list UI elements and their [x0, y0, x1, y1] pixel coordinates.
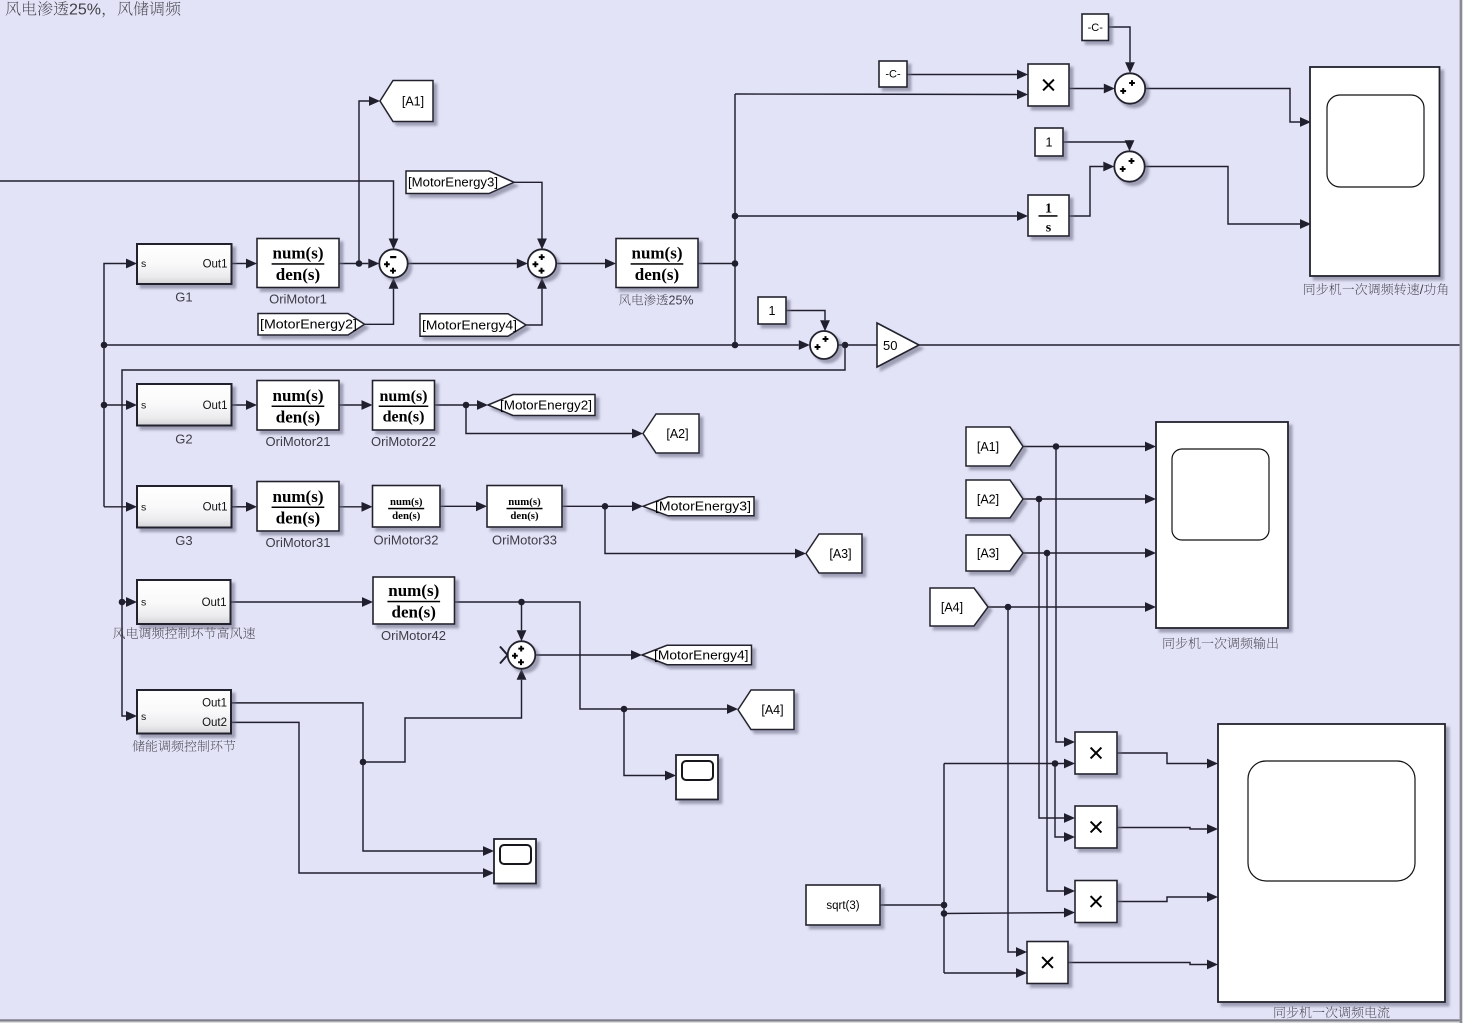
wire: constant 1 into sum S6 top: [1063, 140, 1130, 142]
svg-text:num(s): num(s): [379, 388, 427, 405]
product P2: [1075, 806, 1117, 848]
node: junction with main bus: [732, 342, 739, 349]
svg-text:s: s: [141, 258, 146, 270]
svg-text:G3: G3: [175, 533, 192, 548]
wire: trunk top to product X1 second input: [735, 93, 1017, 96]
wire: trunk to integrator 1/s input: [735, 215, 1017, 217]
node: branch to sum S4: [518, 599, 525, 606]
goto tag MotorEnergy4: [642, 645, 752, 665]
transfer fcn OriMotor32: [373, 486, 441, 528]
node: A1 branch: [1053, 443, 1060, 450]
svg-text:50: 50: [883, 338, 897, 353]
svg-text:[MotorEnergy3]: [MotorEnergy3]: [408, 176, 498, 190]
svg-text:OriMotor32: OriMotor32: [374, 533, 439, 548]
wire: branch up to goto [A1]: [359, 101, 369, 264]
node: gain input branch: [842, 342, 849, 349]
node: A2 branch: [1036, 496, 1043, 503]
wire: G1 to OriMotor1: [232, 263, 247, 265]
wire: sum S6 to scope1 input2: [1145, 167, 1300, 225]
wire: sum S1 to sum S2: [408, 263, 517, 265]
svg-text:[A4]: [A4]: [761, 703, 783, 717]
from tag MotorEnergy2: [258, 314, 365, 336]
wire: gain 50 output to right edge: [919, 344, 1463, 346]
node: TF output junction: [732, 260, 739, 267]
wire: sqrt bottom branch to product P4 input2: [944, 972, 1016, 974]
svg-text:25%: 25%: [669, 294, 694, 308]
wire: vertical trunk x=735: [734, 94, 736, 345]
svg-text:OriMotor33: OriMotor33: [492, 533, 557, 548]
wire: product P3 to scope3 input3: [1117, 897, 1207, 902]
svg-text:OriMotor22: OriMotor22: [371, 434, 436, 449]
node: branch to G2: [101, 402, 108, 409]
svg-text:Out1: Out1: [203, 502, 228, 514]
transfer fcn OriMotor31: [257, 482, 339, 532]
node: branch to subsystem G4: [119, 599, 126, 606]
wire: sum S4 to goto MotorEnergy4: [535, 654, 631, 656]
node: branch to product P3: [941, 910, 948, 917]
svg-text:-C-: -C-: [885, 69, 901, 81]
scope: sync machine primary freq current: [1218, 724, 1445, 1002]
scope: sync machine primary freq output: [1156, 422, 1288, 628]
svg-text:OriMotor42: OriMotor42: [381, 628, 446, 643]
wire: G5 Out2 to small scope A input2: [231, 722, 483, 873]
wire: OriMotor32 to OriMotor33: [440, 505, 476, 507]
wire: OriMotor22 to goto MotorEnergy2: [435, 404, 478, 406]
sum S2: [528, 249, 556, 277]
wire: integrator to sum S6: [1069, 167, 1103, 217]
node: sqrt branch to P2: [1052, 760, 1059, 767]
window bottom edge: [0, 1019, 1463, 1023]
wire: sqrt(3) to distribution vertical: [880, 904, 944, 906]
wire: product P2 to scope3 input2: [1117, 828, 1207, 830]
goto tag [A2]: [643, 414, 699, 453]
scope: sync machine speed/angle: [1310, 67, 1440, 276]
svg-text:OriMotor21: OriMotor21: [266, 434, 331, 449]
constant -C- (left): [879, 61, 907, 87]
svg-text:[A2]: [A2]: [666, 427, 688, 441]
svg-text:[MotorEnergy4]: [MotorEnergy4]: [654, 648, 749, 662]
svg-text:[A1]: [A1]: [402, 94, 424, 108]
svg-text:G2: G2: [175, 432, 192, 447]
wire: branch down to goto [A3]: [605, 506, 795, 553]
product X1: [1028, 64, 1069, 106]
wire: From [A3] to scope2 input3: [1023, 552, 1145, 554]
transfer fcn OriMotor1: [257, 239, 339, 288]
svg-text:den(s): den(s): [392, 510, 421, 522]
wire: OriMotor21 to OriMotor22: [339, 404, 362, 406]
svg-text:num(s): num(s): [272, 386, 323, 405]
goto tag MotorEnergy2: [488, 395, 595, 416]
transfer fcn wind penetration 25%: [616, 239, 698, 288]
svg-text:[A2]: [A2]: [977, 492, 999, 506]
wire: branch into G4 input: [122, 601, 126, 603]
from tag MotorEnergy3: [406, 171, 514, 194]
svg-text:num(s): num(s): [388, 581, 439, 600]
wire: A3 vertical down to product P3: [1047, 553, 1064, 891]
transfer fcn OriMotor21: [257, 381, 339, 431]
small scope B: [676, 755, 718, 800]
svg-text:num(s): num(s): [390, 496, 423, 508]
goto tag [A1]: [380, 81, 433, 122]
wire: branch down to small scope B: [624, 709, 665, 776]
node: branch to goto A2: [463, 402, 470, 409]
svg-text:num(s): num(s): [272, 487, 323, 506]
svg-text:sqrt(3): sqrt(3): [826, 900, 859, 912]
wire: top bus y=181 from left edge into sum S1 top: [0, 181, 394, 239]
wire: From [A4] to scope2 input4: [988, 606, 1145, 608]
node: branch to goto A3: [602, 503, 609, 510]
svg-text:-C-: -C-: [1088, 22, 1104, 34]
wire: OriMotor31 to OriMotor32: [339, 506, 362, 508]
unconnected port marker on sum S4: [500, 647, 508, 664]
wire: OriMotor33 to goto MotorEnergy3: [562, 505, 632, 507]
wire: From MotorEnergy3 into sum S2 top: [514, 182, 542, 238]
wire: sqrt branch down to product P2 input2: [1055, 764, 1064, 838]
wire: TF output joins vertical trunk x=735: [698, 263, 735, 265]
constant 1 (upper): [1035, 128, 1063, 156]
wire: sqrt top branch to product P1 input2: [944, 763, 1064, 765]
from tag [A2]: [966, 480, 1023, 518]
svg-text:num(s): num(s): [272, 244, 323, 263]
wire: product X1 to sum S5: [1069, 88, 1104, 90]
constant -C- (top): [1082, 14, 1109, 41]
svg-text:den(s): den(s): [392, 603, 436, 622]
subsystem G2: [137, 384, 232, 426]
svg-text:s: s: [141, 597, 146, 609]
svg-text:s: s: [141, 501, 146, 513]
constant sqrt(3): [806, 885, 880, 925]
svg-text:[A1]: [A1]: [977, 440, 999, 454]
svg-text:25%: 25%: [69, 2, 101, 19]
node: branch to small scope A: [360, 759, 367, 766]
wire: sqrt distribution vertical x=944: [943, 764, 945, 974]
sum S5: [1115, 73, 1145, 103]
wire: A1 vertical down to product P1: [1056, 447, 1064, 743]
wire: feed into G3: [104, 506, 126, 508]
svg-text:den(s): den(s): [276, 407, 320, 426]
svg-text:s: s: [141, 400, 146, 412]
svg-text:1: 1: [1046, 135, 1053, 149]
wire: branch down into sum S4 top: [521, 602, 523, 630]
svg-text:Out2: Out2: [202, 717, 227, 729]
svg-text:[MotorEnergy3]: [MotorEnergy3]: [655, 500, 751, 514]
wire: product P4 to scope3 input4: [1068, 963, 1207, 965]
svg-text:1: 1: [1045, 202, 1052, 217]
wire: main bus y=345 into sum S3: [104, 344, 799, 346]
svg-text:num(s): num(s): [631, 244, 682, 263]
wire: A2 vertical down to product P2: [1039, 499, 1064, 818]
svg-text:/: /: [1420, 282, 1424, 297]
svg-text:Out1: Out1: [202, 597, 227, 609]
wire: constant -C- to product X1 first input: [907, 74, 1017, 76]
wire: sqrt branch to product P3 input2: [944, 912, 1064, 915]
subsystem G4 wind control high speed: [137, 580, 231, 624]
svg-text:den(s): den(s): [635, 265, 679, 284]
wire: branch down to goto [A2]: [466, 405, 632, 434]
svg-text:[MotorEnergy2]: [MotorEnergy2]: [260, 318, 357, 332]
wire: OriMotor1 output to sum S1: [339, 263, 368, 265]
wire: G5 Out1 staircase into sum S4 bottom: [231, 680, 522, 762]
wire: From [A2] to scope2 input2: [1023, 498, 1145, 500]
svg-text:den(s): den(s): [510, 510, 539, 522]
svg-text:s: s: [1046, 221, 1052, 236]
wire: left feed vertical x=104 to G1: [104, 264, 126, 507]
node: A4 branch: [1005, 604, 1012, 611]
transfer fcn OriMotor22: [373, 381, 435, 431]
svg-text:den(s): den(s): [383, 408, 425, 425]
wire: OriMotor42 output east: [455, 602, 728, 709]
svg-text:G1: G1: [175, 290, 192, 305]
node: bus junction on G-feed: [101, 342, 108, 349]
svg-text:Out1: Out1: [203, 400, 228, 412]
node: branch to goto A1: [356, 260, 363, 267]
svg-text:[A3]: [A3]: [977, 546, 999, 560]
subsystem G5 storage control: [137, 690, 231, 734]
from tag MotorEnergy4: [420, 314, 526, 337]
node: branch to integrator: [732, 213, 739, 220]
wire: G3 to OriMotor31: [232, 506, 247, 508]
svg-text:[A3]: [A3]: [829, 547, 851, 561]
annotation title: [6, 1, 181, 18]
wire: branch down to small scope A input1: [363, 762, 483, 851]
svg-text:OriMotor1: OriMotor1: [269, 292, 327, 307]
svg-text:Out1: Out1: [203, 258, 228, 270]
wire: G4 to OriMotor42: [231, 601, 363, 603]
from tag [A4]: [930, 588, 988, 626]
small scope A: [494, 839, 536, 884]
wire: constant 1 into sum S3 top: [786, 311, 825, 321]
window right edge: [1460, 0, 1463, 1023]
svg-text:num(s): num(s): [508, 496, 541, 508]
svg-text:[A4]: [A4]: [941, 600, 963, 614]
node: sqrt output junction: [941, 902, 948, 909]
from tag [A3]: [966, 535, 1023, 571]
wire: constant -C- top into sum S5: [1109, 27, 1131, 62]
svg-text:den(s): den(s): [276, 265, 320, 284]
sum S1: [379, 249, 407, 277]
product P4: [1027, 942, 1068, 984]
svg-text:Out1: Out1: [202, 698, 227, 710]
product P3: [1075, 881, 1117, 923]
wire: sum S2 to TF wind-penetration block: [556, 263, 605, 265]
wire: From [A1] to scope2 input1: [1023, 446, 1145, 448]
wire: From MotorEnergy4 into sum S2 bottom: [526, 289, 542, 325]
wire: From MotorEnergy2 up into sum S1 bottom: [365, 289, 394, 325]
wire: A4 vertical down to product P4: [1008, 607, 1016, 952]
svg-text:s: s: [141, 711, 146, 723]
subsystem G3: [137, 486, 232, 528]
constant 1 (lower): [758, 297, 786, 324]
svg-text:1: 1: [769, 304, 776, 318]
svg-text:[MotorEnergy4]: [MotorEnergy4]: [422, 318, 517, 332]
wire: G2 to OriMotor21: [232, 404, 247, 406]
sum S4: [508, 641, 536, 669]
transfer fcn OriMotor42: [373, 577, 455, 624]
svg-text:den(s): den(s): [276, 508, 320, 527]
goto tag [A3]: [806, 534, 862, 573]
transfer fcn OriMotor33: [487, 486, 562, 528]
wire: sum S5 to scope1 input1: [1145, 89, 1300, 123]
from tag [A1]: [966, 427, 1023, 466]
wire: feedback from node down-left to x=122 vertical: [122, 345, 845, 716]
goto tag [A4]: [738, 690, 794, 730]
svg-text:[MotorEnergy2]: [MotorEnergy2]: [500, 398, 592, 412]
wire: product P1 to scope3 input1: [1117, 753, 1207, 764]
integrator 1/s: [1028, 195, 1069, 236]
subsystem G1: [137, 244, 232, 284]
sum S6: [1114, 151, 1144, 181]
sum S3: [810, 331, 838, 359]
goto tag MotorEnergy3: [643, 497, 754, 516]
product P1: [1075, 732, 1117, 774]
node: A3 branch: [1044, 550, 1051, 557]
wire: branch into G2: [104, 404, 126, 406]
svg-text:OriMotor31: OriMotor31: [266, 535, 331, 550]
wire: sum S3 to gain 50: [838, 344, 877, 346]
gain 50: [877, 323, 919, 367]
